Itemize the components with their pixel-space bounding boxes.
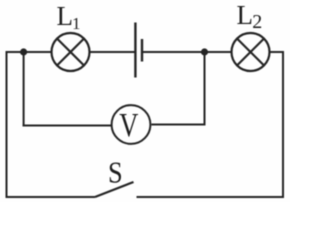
wire left vertical — [6, 51, 8, 198]
wire top left segment — [6, 51, 52, 53]
voltmeter U1 — [112, 105, 151, 144]
wire right vertical — [282, 51, 284, 198]
node junction dot left — [20, 48, 27, 55]
wire voltmeter drop left — [23, 52, 25, 127]
svg-text:L: L — [57, 1, 74, 31]
svg-text:2: 2 — [252, 11, 262, 33]
svg-text:1: 1 — [72, 14, 81, 33]
svg-text:S: S — [108, 155, 123, 189]
switch S — [95, 182, 134, 197]
lamp L1 — [52, 33, 90, 71]
svg-text:L: L — [237, 0, 254, 30]
label L2 — [237, 0, 263, 33]
label L1 — [57, 1, 81, 33]
node junction dot right — [201, 48, 208, 55]
svg-text:V: V — [119, 106, 138, 144]
wire bottom right segment — [137, 196, 285, 198]
wire L1 to battery — [90, 51, 135, 53]
wire voltmeter horizontal left — [23, 125, 111, 127]
wire voltmeter rise right — [204, 52, 206, 125]
wire battery to L2 — [142, 51, 231, 53]
wire bottom left segment — [6, 196, 96, 198]
wire voltmeter horizontal right — [152, 124, 206, 126]
lamp L2 — [232, 33, 270, 71]
wire L2 to top right corner — [270, 51, 284, 53]
battery B1 — [135, 23, 142, 78]
